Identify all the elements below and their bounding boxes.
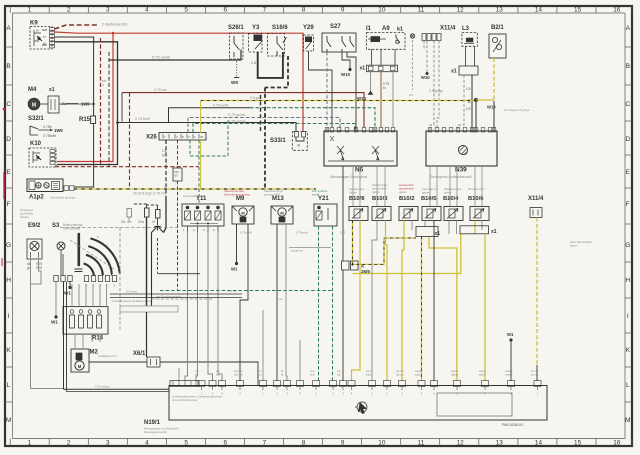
aux symbol right of k1 xyxy=(410,34,414,38)
control unit N39 xyxy=(426,131,497,166)
svg-text:W1: W1 xyxy=(51,320,58,325)
misc gray drops xyxy=(262,310,264,381)
yellow drop to bus 421.5 xyxy=(421,237,423,382)
S3 wiper bar xyxy=(78,234,81,265)
svg-text:W1: W1 xyxy=(507,332,514,337)
svg-text:A1p2: A1p2 xyxy=(29,195,44,201)
svg-text:0.75 gn/sw: 0.75 gn/sw xyxy=(228,119,246,123)
svg-text:H: H xyxy=(6,277,11,284)
svg-text:M9: M9 xyxy=(236,196,245,202)
wire maroon bus to S33/1 xyxy=(122,93,364,128)
control unit N6 xyxy=(324,131,397,166)
svg-text:6: 6 xyxy=(223,6,227,13)
svg-text:2: 2 xyxy=(67,440,71,447)
svg-text:0.75sw/bl: 0.75sw/bl xyxy=(296,231,308,235)
svg-text:signal: signal xyxy=(415,372,422,376)
wires X11/4 down xyxy=(426,41,428,73)
svg-text:Steuergerat kombi: Steuergerat kombi xyxy=(144,430,167,434)
svg-text:ohne Drehzahlmesser: ohne Drehzahlmesser xyxy=(172,398,198,402)
S27 wires down xyxy=(326,52,328,131)
diode I1 blob xyxy=(371,36,381,42)
svg-text:rpm: rpm xyxy=(257,372,261,376)
svg-text:30 (0.5 rt/gn 0.75 rt): 30 (0.5 rt/gn 0.75 rt) xyxy=(133,192,165,196)
svg-text:7: 7 xyxy=(263,440,267,447)
svg-text:sig: sig xyxy=(216,372,220,376)
svg-text:X6/1: X6/1 xyxy=(133,351,146,357)
svg-text:P88-5258-93: P88-5258-93 xyxy=(502,423,523,427)
svg-text:F: F xyxy=(7,201,11,208)
fuse 27a xyxy=(145,208,150,217)
wire Y29 down to N6 xyxy=(309,51,333,128)
blue dashed bus 0.75 gn/ws xyxy=(188,118,340,133)
X26 drops down xyxy=(165,140,167,196)
svg-text:/10: /10 xyxy=(174,174,178,178)
svg-text:I: I xyxy=(627,313,629,320)
svg-text:2: 2 xyxy=(67,6,71,13)
svg-text:vgl: vgl xyxy=(195,372,199,376)
control unit N19/1 xyxy=(169,386,547,421)
B10/3 drops xyxy=(372,221,377,382)
svg-text:vgl: vgl xyxy=(195,369,199,373)
svg-text:E: E xyxy=(6,169,11,176)
S3 row to bus pair xyxy=(63,282,65,390)
wire dark-red dashed from K9 (2 Beifahrersitz) xyxy=(55,25,100,29)
svg-text:sig out: sig out xyxy=(396,372,404,376)
svg-text:M: M xyxy=(625,417,631,424)
svg-text:R15: R15 xyxy=(79,117,91,123)
svg-text:signal ac: signal ac xyxy=(291,249,303,253)
svg-text:1.5: 1.5 xyxy=(162,149,167,153)
wire black K9 down to K10 xyxy=(55,42,118,165)
svg-text:M: M xyxy=(32,102,36,108)
S3 contact arcs xyxy=(84,264,94,276)
svg-text:3: 3 xyxy=(106,6,110,13)
svg-text:r8: r8 xyxy=(297,144,300,148)
horizontal links lower-left xyxy=(110,293,242,295)
wire Y3 heavy down xyxy=(258,52,283,78)
svg-text:x1: x1 xyxy=(49,87,55,93)
A1p2 right pins xyxy=(64,186,69,191)
svg-text:6: 6 xyxy=(223,440,227,447)
sub connector on drop xyxy=(173,168,182,181)
svg-text:Vorwiderstand Geblasemotor: Vorwiderstand Geblasemotor xyxy=(112,299,151,303)
contact k1 xyxy=(396,35,400,44)
wire black K9 via R15 to A1p2 xyxy=(55,37,94,116)
S3 pin row xyxy=(54,276,58,282)
svg-text:F: F xyxy=(626,201,630,208)
wires S3 row to R14 xyxy=(71,284,73,307)
fuse drops and arrow junction xyxy=(146,217,148,306)
S3 circle wire xyxy=(61,251,63,276)
svg-text:4: 4 xyxy=(145,6,149,13)
svg-text:S33/1: S33/1 xyxy=(270,138,286,144)
svg-text:M: M xyxy=(78,364,82,369)
N39 to sensors verticals xyxy=(429,166,431,206)
svg-text:0.75 sw/bl: 0.75 sw/bl xyxy=(213,104,229,108)
svg-text:G: G xyxy=(625,242,630,249)
svg-text:4: 4 xyxy=(145,440,149,447)
wire z to W10 and N39 xyxy=(476,99,494,101)
svg-text:14: 14 xyxy=(535,6,543,13)
svg-text:0.5 ge: 0.5 ge xyxy=(250,96,260,100)
motor M2 xyxy=(71,349,89,372)
svg-text:geber: geber xyxy=(444,191,452,195)
svg-text:signal: signal xyxy=(415,369,422,373)
svg-text:16: 16 xyxy=(613,6,621,13)
svg-text:B: B xyxy=(6,63,11,70)
green dashed drop from X26 xyxy=(190,118,228,157)
resistor block R14 xyxy=(63,307,108,335)
B10/6 drops xyxy=(474,221,476,234)
svg-text:ac out: ac out xyxy=(531,372,538,376)
wire black branch to S33/1 xyxy=(118,123,297,132)
svg-text:S26/1: S26/1 xyxy=(228,25,244,31)
svg-text:1: 1 xyxy=(28,6,32,13)
svg-text:C: C xyxy=(625,101,630,108)
yellow drop left-x1 to bus 457 xyxy=(429,237,457,382)
B10/4 stubs xyxy=(448,221,450,235)
yellow bus wire y=100 xyxy=(201,100,476,102)
svg-text:K9: K9 xyxy=(30,21,38,27)
svg-text:geber: geber xyxy=(372,190,380,194)
svg-text:0.75 sw/gn: 0.75 sw/gn xyxy=(95,385,110,389)
connector X26/6 xyxy=(342,261,350,270)
green dashed bus 0.75 gn/sw xyxy=(193,124,355,133)
svg-text:pumpe ABV: pumpe ABV xyxy=(264,193,280,197)
svg-text:27a: 27a xyxy=(138,220,144,224)
svg-text:15: 15 xyxy=(574,440,582,447)
svg-text:W10: W10 xyxy=(421,75,430,80)
svg-text:0.5 sw/ge 0.5 gr/ge: 0.5 sw/ge 0.5 gr/ge xyxy=(504,108,530,112)
svg-text:sig: sig xyxy=(216,369,220,373)
svg-text:I: I xyxy=(8,313,10,320)
svg-text:X26: X26 xyxy=(174,170,179,174)
svg-text:rpm: rpm xyxy=(257,369,261,373)
svg-text:0.5: 0.5 xyxy=(466,107,471,111)
wires into x1 xyxy=(372,49,396,65)
connector x1 mid xyxy=(416,227,438,237)
svg-text:B10/2: B10/2 xyxy=(399,196,414,202)
R14 to M2 wires xyxy=(75,334,83,349)
svg-text:0.75: 0.75 xyxy=(36,266,42,270)
svg-text:B: B xyxy=(626,63,631,70)
svg-text:W10: W10 xyxy=(487,105,496,110)
svg-text:N6: N6 xyxy=(355,167,364,174)
svg-text:C: C xyxy=(6,101,11,108)
svg-text:B2/1: B2/1 xyxy=(491,25,504,31)
wire maroon dashed to fuse row xyxy=(55,166,199,168)
svg-text:H: H xyxy=(625,277,630,284)
svg-text:15: 15 xyxy=(574,6,582,13)
svg-text:baum: baum xyxy=(570,244,578,248)
svg-text:12: 12 xyxy=(457,440,465,447)
svg-text:signal: signal xyxy=(479,372,486,376)
yellow/black wire terminal 30 xyxy=(74,188,316,190)
bus connectors xyxy=(170,381,199,387)
svg-text:24: 24 xyxy=(121,220,125,224)
svg-text:A9: A9 xyxy=(382,26,390,32)
svg-text:geber: geber xyxy=(399,190,407,194)
svg-text:7: 7 xyxy=(263,6,267,13)
Y11 drops xyxy=(185,232,188,381)
svg-text:X11/4: X11/4 xyxy=(440,26,456,32)
svg-text:B10/8: B10/8 xyxy=(349,196,365,202)
svg-text:X26: X26 xyxy=(146,135,157,141)
svg-text:Y3: Y3 xyxy=(252,25,260,31)
svg-text:0.75b: 0.75b xyxy=(43,125,52,129)
X26 yellow riser and drop to term30 xyxy=(200,101,202,134)
svg-text:2 Beifahrersitz: 2 Beifahrersitz xyxy=(102,22,128,27)
svg-text:9: 9 xyxy=(341,6,345,13)
svg-text:sig: sig xyxy=(337,372,341,376)
svg-text:W10: W10 xyxy=(341,72,351,77)
svg-text:x1: x1 xyxy=(435,231,441,237)
ground W9 xyxy=(236,61,238,77)
svg-text:x1: x1 xyxy=(491,229,497,235)
svg-text:8: 8 xyxy=(302,440,306,447)
svg-text:E: E xyxy=(626,169,631,176)
svg-text:1.5: 1.5 xyxy=(251,61,256,65)
svg-text:z: z xyxy=(468,99,471,105)
wire red branch down to K10 xyxy=(57,33,113,162)
wire yellow dashed B2/1 to z xyxy=(493,58,495,100)
svg-text:Geblasemotor: Geblasemotor xyxy=(98,354,117,358)
svg-text:vgl cmp: vgl cmp xyxy=(234,372,243,376)
wire maroon dashed down to term30 line xyxy=(129,93,131,189)
yellow-dash weave B10/8 to x1 xyxy=(353,221,417,265)
ground W1 under S3 xyxy=(55,282,57,317)
svg-text:D: D xyxy=(625,136,630,143)
svg-text:signal: signal xyxy=(451,369,458,373)
svg-text:L: L xyxy=(7,382,11,389)
B10/8 right pin to bus xyxy=(352,221,361,382)
svg-text:tmp: tmp xyxy=(310,369,315,373)
svg-text:vgl cmp: vgl cmp xyxy=(234,369,243,373)
svg-text:1W9: 1W9 xyxy=(54,128,63,133)
svg-text:Y29: Y29 xyxy=(303,25,314,31)
yellow link to right x1 xyxy=(353,234,461,274)
steering symbol xyxy=(357,402,367,412)
wires E9/2 down xyxy=(31,257,64,389)
svg-text:L: L xyxy=(626,382,630,389)
svg-text:ac out: ac out xyxy=(531,369,538,373)
svg-text:x1: x1 xyxy=(451,69,457,75)
wire M2 to X6/1 to bus xyxy=(89,361,147,363)
N6 to sensors verticals xyxy=(352,166,354,206)
wires x1 down to N6 xyxy=(370,72,372,93)
svg-text:12: 12 xyxy=(457,6,465,13)
svg-text:W1: W1 xyxy=(231,267,238,272)
ground bus into N19/1 xyxy=(64,388,170,390)
svg-text:signal: signal xyxy=(451,372,458,376)
wire black dashed vertical xyxy=(108,52,110,167)
dashed heavy jumper under S16/6 xyxy=(265,56,288,88)
svg-text:26/6: 26/6 xyxy=(361,269,370,274)
svg-text:0.5 gn/ge: 0.5 gn/ge xyxy=(429,89,443,93)
svg-text:k1: k1 xyxy=(397,27,403,33)
node z xyxy=(474,98,478,102)
svg-text:9: 9 xyxy=(341,440,345,447)
M9 drops xyxy=(236,224,238,262)
wires L3 down to N39 xyxy=(458,75,464,131)
X26 riser wire xyxy=(119,108,250,123)
scan artifact red marks xyxy=(3,172,5,199)
svg-text:11: 11 xyxy=(418,440,425,447)
svg-text:8: 8 xyxy=(302,6,306,13)
svg-text:tmp: tmp xyxy=(310,372,315,376)
svg-text:R14: R14 xyxy=(92,336,104,342)
svg-text:ventil: ventil xyxy=(312,193,319,197)
svg-text:N19/1: N19/1 xyxy=(144,420,161,426)
svg-text:16: 16 xyxy=(613,440,621,447)
svg-text:14: 14 xyxy=(535,440,543,447)
svg-text:signal: signal xyxy=(479,369,486,373)
svg-text:bl: bl xyxy=(162,154,165,158)
svg-text:sig: sig xyxy=(337,369,341,373)
svg-text:0.75 sw/bl: 0.75 sw/bl xyxy=(152,55,170,60)
green dashed bus 0.75 bl/gn xyxy=(250,108,375,131)
svg-text:S16/6: S16/6 xyxy=(272,25,288,31)
svg-text:x7: x7 xyxy=(152,220,156,224)
svg-text:10: 10 xyxy=(378,440,386,447)
svg-text:S27: S27 xyxy=(330,24,341,30)
svg-text:1.5: 1.5 xyxy=(466,87,471,91)
svg-text:B10/3: B10/3 xyxy=(372,196,388,202)
svg-text:0.75br/bl: 0.75br/bl xyxy=(43,134,56,138)
dashed drop right of fuses xyxy=(157,238,159,273)
B10/5 drops xyxy=(424,221,426,227)
ground W1 right xyxy=(69,282,71,287)
fuse f3 xyxy=(156,210,161,219)
svg-text:G: G xyxy=(6,242,11,249)
B10/2 drops xyxy=(402,221,404,382)
svg-text:W1: W1 xyxy=(64,291,71,296)
svg-text:L3: L3 xyxy=(462,26,470,32)
svg-text:Zentralverriegelung: Zentralverriegelung xyxy=(224,193,250,197)
svg-text:X11/4: X11/4 xyxy=(528,196,544,202)
svg-text:S3: S3 xyxy=(52,223,60,229)
svg-text:13: 13 xyxy=(496,6,504,13)
Y21 drops green xyxy=(318,226,320,381)
strip connector above R14/M2 xyxy=(120,306,178,312)
svg-text:sig out: sig out xyxy=(396,369,404,373)
M13 drops xyxy=(276,224,278,381)
svg-text:0.5 ws/rt: 0.5 ws/rt xyxy=(126,290,138,294)
svg-text:5: 5 xyxy=(184,440,188,447)
wire red feed K9 to S33/1 and N6 xyxy=(55,32,304,132)
fuse 24 xyxy=(127,209,132,218)
svg-text:0.5 ws: 0.5 ws xyxy=(228,289,237,293)
svg-text:5: 5 xyxy=(184,6,188,13)
S3 enclosure right edge extension xyxy=(120,227,180,229)
svg-text:0.75 ws: 0.75 ws xyxy=(154,88,167,92)
svg-text:10: 10 xyxy=(378,6,386,13)
svg-text:K: K xyxy=(626,347,631,354)
wire from x1 up-right xyxy=(59,103,94,105)
svg-text:Steuergerat Leerlaufdrehzahl: Steuergerat Leerlaufdrehzahl xyxy=(430,175,472,179)
svg-text:x1: x1 xyxy=(360,66,366,72)
N6 to X26/6 to bus wire xyxy=(342,166,344,381)
svg-text:K: K xyxy=(6,347,11,354)
svg-text:0.75 gn/ws: 0.75 gn/ws xyxy=(228,113,246,117)
svg-text:0.5: 0.5 xyxy=(409,93,413,97)
svg-text:A: A xyxy=(6,25,11,32)
svg-text:mit Drehzahlmesser u. Drehstro: mit Drehzahlmesser u. Drehstromgenerator xyxy=(172,395,222,399)
svg-text:ws: ws xyxy=(279,297,283,301)
svg-text:0.75sw/bl: 0.75sw/bl xyxy=(240,231,252,235)
svg-text:sig in: sig in xyxy=(366,369,373,373)
S3 dashed enclosure xyxy=(60,227,120,229)
wire maroon dashed vertical xyxy=(100,38,102,167)
svg-text:K10: K10 xyxy=(30,141,42,147)
svg-text:I1: I1 xyxy=(366,26,372,32)
svg-text:A: A xyxy=(626,25,631,32)
svg-text:B10/5: B10/5 xyxy=(421,196,437,202)
svg-text:3: 3 xyxy=(106,440,110,447)
svg-text:Umschaltventile: Umschaltventile xyxy=(183,194,205,198)
svg-text:D: D xyxy=(6,136,11,143)
black dashed drop from X26 through X26/10 xyxy=(177,140,179,168)
svg-text:0.75 br/bl: 0.75 br/bl xyxy=(135,117,150,121)
wire X11/4 yellow dashed down xyxy=(536,218,538,366)
svg-text:M4: M4 xyxy=(28,87,37,93)
right x1 to bus yellow xyxy=(484,234,486,381)
svg-text:E9/2: E9/2 xyxy=(28,223,41,229)
wire black to S26/1 xyxy=(109,50,241,61)
svg-text:S32/1: S32/1 xyxy=(28,116,44,122)
svg-text:geber: geber xyxy=(422,191,430,195)
svg-text:Kasten: Kasten xyxy=(20,215,29,219)
svg-text:masse: masse xyxy=(505,373,513,376)
svg-text:M13: M13 xyxy=(272,196,284,202)
svg-text:11: 11 xyxy=(418,6,425,13)
svg-text:Schalttafel anzeige: Schalttafel anzeige xyxy=(50,196,76,200)
connector x1 right xyxy=(460,226,489,234)
svg-text:M: M xyxy=(6,417,12,424)
svg-text:13: 13 xyxy=(496,440,504,447)
svg-text:Klimaanlagen-Steuergerat: Klimaanlagen-Steuergerat xyxy=(330,175,367,179)
svg-text:rt: rt xyxy=(102,83,104,87)
svg-text:W9: W9 xyxy=(231,80,238,85)
svg-text:1: 1 xyxy=(28,440,32,447)
svg-text:sig in: sig in xyxy=(366,372,373,376)
svg-text:25: 25 xyxy=(200,135,204,139)
arc end stubs xyxy=(93,272,95,276)
svg-text:Y21: Y21 xyxy=(318,196,329,202)
